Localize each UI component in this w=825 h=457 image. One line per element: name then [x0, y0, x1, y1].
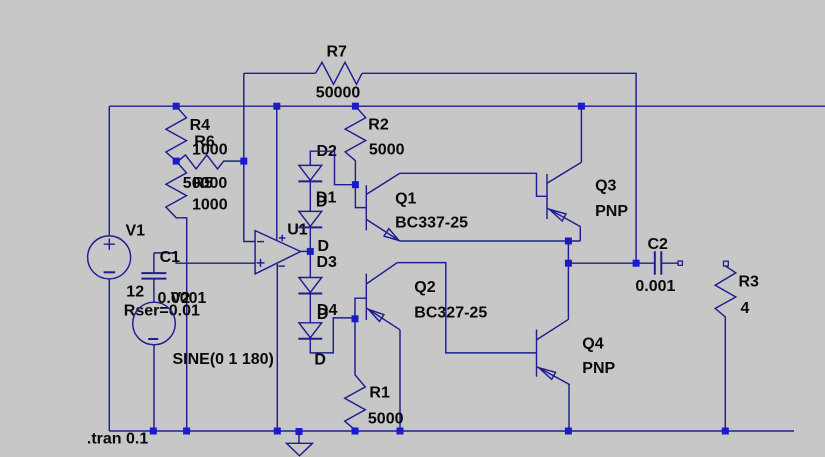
svg-text:C1: C1 [160, 249, 181, 266]
voltage source V1 circle [88, 236, 131, 279]
resistor R1 [345, 319, 366, 431]
wire V2 bottom lead [153, 345, 155, 431]
svg-text:D3: D3 [317, 254, 338, 271]
wire Q1 base jog [355, 185, 366, 208]
V1 plus sign [104, 239, 115, 250]
ground [287, 431, 313, 456]
node square R7/output line [633, 260, 640, 267]
wire Q3 collector down to emitter line [579, 227, 581, 241]
node square rail/ground [296, 428, 303, 435]
diode D1 [299, 211, 322, 226]
wire R7 left horizontal [244, 72, 316, 74]
wire C2 right lead [661, 262, 678, 264]
svg-text:R3: R3 [739, 273, 760, 290]
capacitor C2 [655, 251, 662, 274]
resistor R7 [316, 62, 363, 84]
wire Q1 emitter line [400, 240, 581, 242]
op-amp V- power pin minus [278, 265, 285, 267]
op-amp inverting input minus [257, 241, 264, 243]
svg-text:1000: 1000 [192, 196, 228, 213]
svg-text:BC327-25: BC327-25 [414, 304, 487, 321]
resistor R4 [166, 106, 187, 161]
wire Q1 collector to Q3 base [400, 173, 547, 196]
svg-text:R2: R2 [368, 116, 389, 133]
transistor Q1 [366, 173, 400, 241]
svg-text:SINE(0 1 180): SINE(0 1 180) [173, 351, 274, 368]
V2 minus sign [148, 338, 158, 340]
wire output vertical [567, 241, 569, 319]
transistor Q2 [366, 263, 400, 330]
wire opamp V- power lead [276, 264, 278, 431]
op-amp U1 triangle [255, 231, 301, 274]
node square opamp output/diode chain [307, 248, 314, 255]
svg-text:0.001: 0.001 [635, 278, 675, 295]
diode D2 cathode bar [298, 180, 322, 182]
wire Q2 collector to Q4 base [397, 263, 536, 353]
svg-text:R7: R7 [327, 44, 348, 61]
wire V1 bottom lead [108, 279, 110, 431]
capacitor C1 [141, 273, 166, 279]
svg-text:Q1: Q1 [395, 191, 416, 208]
resistor R5 [166, 161, 187, 431]
node square rail/R1 [352, 428, 359, 435]
wire bottom rail [109, 430, 794, 432]
wire D2 anode jog to Q1 base node [310, 151, 355, 185]
wire D1 to D3 through output node [309, 227, 311, 277]
op-amp non-inverting input plus [257, 259, 265, 267]
wire opamp non-inverting input line [154, 253, 255, 263]
node square rail/Q4 emitter [565, 428, 572, 435]
svg-text:D: D [318, 238, 330, 255]
resistor R6 horizontal [176, 155, 244, 169]
svg-text:5000: 5000 [368, 410, 404, 427]
wire feedback vertical (R7 left to opamp inverting input) [244, 73, 255, 241]
svg-text:Q2: Q2 [414, 279, 435, 296]
node square rail/opamp V- [274, 428, 281, 435]
node square rail/V2 [150, 428, 157, 435]
op-amp V+ power pin plus [279, 235, 285, 241]
svg-text:PNP: PNP [595, 203, 628, 220]
svg-text:R4: R4 [190, 117, 211, 134]
node square output top [565, 238, 572, 245]
node square rail/Q3 [578, 103, 585, 110]
wire D3 to D4 [309, 294, 311, 323]
node square rail/R3 [722, 428, 729, 435]
node square rail/R4 [173, 103, 180, 110]
voltage source V2 circle [133, 302, 176, 345]
svg-text:R6: R6 [194, 133, 215, 150]
transistor Q4 [537, 319, 570, 385]
svg-text:R5: R5 [193, 175, 214, 192]
diode D4 [299, 323, 322, 338]
diode D2 [299, 165, 322, 180]
node square rail/R2 [352, 103, 359, 110]
wire C1 bottom lead [153, 279, 155, 302]
diode D4 cathode bar [298, 338, 322, 340]
diode D1 cathode bar [298, 226, 322, 228]
svg-text:12: 12 [126, 284, 144, 301]
wire Q2 base jog [355, 298, 366, 319]
svg-text:50000: 50000 [316, 85, 361, 102]
svg-text:D: D [316, 193, 328, 210]
svg-text:R1: R1 [369, 385, 390, 402]
wire C1 top lead [153, 253, 155, 273]
svg-text:D: D [317, 306, 329, 323]
diode D3 [299, 278, 322, 293]
svg-text:5000: 5000 [369, 141, 405, 158]
svg-text:4: 4 [741, 300, 750, 317]
resistor R2 [345, 106, 366, 185]
svg-text:.tran 0.1: .tran 0.1 [87, 430, 148, 447]
svg-text:V2: V2 [171, 290, 191, 307]
wire top rail [109, 105, 825, 107]
wire R7 right horizontal and vertical down to output line [362, 73, 636, 263]
transistor Q3 [547, 162, 581, 226]
node square output [565, 260, 572, 267]
wire output horizontal to C2 [568, 262, 654, 264]
open square C2 right port [678, 261, 682, 265]
wire opamp output [301, 250, 311, 252]
wire D4 jog to Q2 base node [310, 318, 355, 353]
wire D2 to D1 [309, 181, 311, 211]
svg-text:U1: U1 [287, 222, 308, 239]
wire Q2 emitter down to rail [399, 330, 401, 431]
wire Q4 emitter down to rail [568, 385, 570, 431]
svg-text:D: D [314, 352, 326, 369]
wire Q3 emitter up to rail [580, 106, 582, 162]
node square rail/R5 [183, 428, 190, 435]
svg-text:PNP: PNP [582, 360, 615, 377]
svg-text:C2: C2 [648, 236, 669, 253]
node square R6/feedback line [240, 158, 247, 165]
node square rail/Q2 emitter [397, 428, 404, 435]
wire V1 top lead [108, 106, 110, 236]
svg-text:BC337-25: BC337-25 [395, 215, 468, 232]
svg-text:V1: V1 [126, 223, 146, 240]
V1 minus sign [104, 271, 116, 273]
wire opamp V+ power lead [276, 106, 278, 240]
diode D3 cathode bar [298, 293, 322, 295]
node square R4/R5/R6 [173, 158, 180, 165]
node square Q2 base [352, 315, 359, 322]
open square R3 top port [724, 261, 729, 266]
node square rail/opamp V+ [273, 103, 280, 110]
node square Q1 base [352, 181, 359, 188]
resistor R3 [715, 266, 736, 431]
svg-text:Q3: Q3 [595, 178, 616, 195]
svg-text:Q4: Q4 [582, 336, 603, 353]
